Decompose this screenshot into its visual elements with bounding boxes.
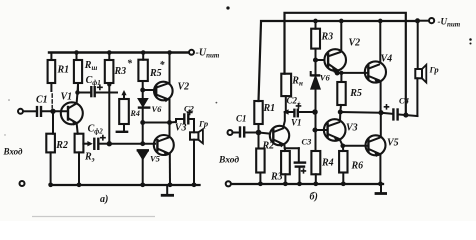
svg-text:б): б)	[310, 192, 318, 203]
svg-text:C1: C1	[36, 95, 48, 106]
svg-text:V2: V2	[178, 82, 190, 93]
svg-text:V1: V1	[291, 118, 302, 128]
svg-text:V5: V5	[150, 154, 161, 164]
svg-text:V4: V4	[381, 54, 393, 65]
svg-text:R4: R4	[321, 158, 334, 169]
svg-text:R3: R3	[321, 32, 334, 43]
svg-text:V3: V3	[346, 123, 358, 134]
svg-text:R1: R1	[263, 103, 276, 114]
svg-text:Вход: Вход	[3, 147, 24, 157]
svg-text:Гр: Гр	[198, 119, 208, 129]
svg-text:V1: V1	[61, 92, 73, 103]
svg-text:C2: C2	[184, 104, 195, 114]
svg-text:Гр: Гр	[429, 65, 439, 75]
svg-text:R2: R2	[55, 140, 68, 151]
svg-text:R3: R3	[114, 66, 127, 77]
svg-text:а): а)	[100, 194, 108, 205]
svg-text:R3: R3	[270, 172, 283, 183]
svg-text:R5: R5	[349, 88, 362, 99]
svg-text:R1: R1	[57, 65, 70, 76]
svg-text:C3: C3	[302, 137, 313, 147]
svg-text:R4: R4	[130, 109, 140, 118]
svg-text:C4: C4	[399, 96, 409, 106]
svg-text:V3: V3	[175, 123, 187, 134]
svg-text:V2: V2	[349, 38, 361, 49]
svg-text:V6: V6	[152, 104, 163, 114]
svg-text:V6: V6	[320, 73, 331, 83]
svg-text:R6: R6	[351, 161, 364, 172]
svg-text:C1: C1	[236, 114, 247, 124]
svg-text:Вход: Вход	[218, 155, 239, 166]
svg-text:V5: V5	[387, 138, 399, 149]
svg-text:R2: R2	[262, 141, 275, 152]
